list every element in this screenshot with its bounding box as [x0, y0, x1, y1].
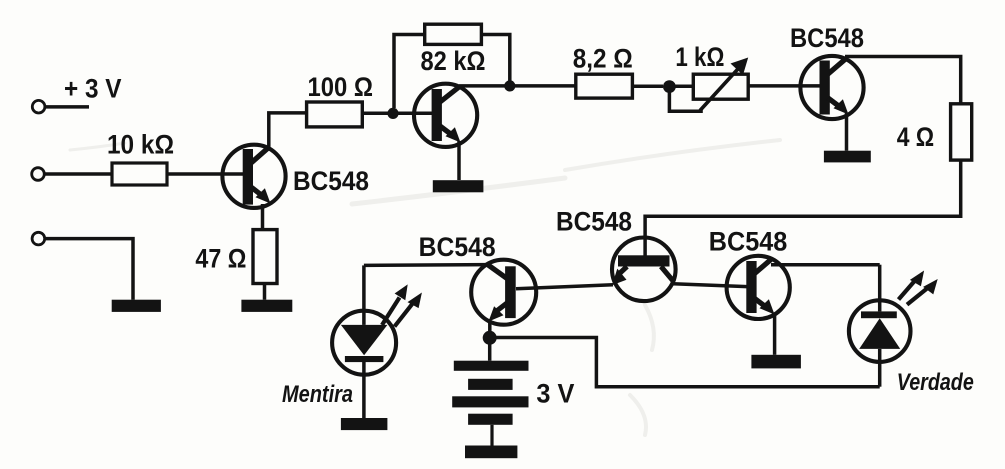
wire 47 Ohm to ground — [263, 284, 267, 300]
wire Q5 collector to Q6 base — [673, 284, 747, 287]
wire Q3 emitter down — [845, 113, 849, 151]
trimmer wiper arrow — [700, 58, 748, 111]
wire Q4 emitter to node D — [488, 319, 492, 334]
LED Verdade light arrows — [899, 271, 938, 305]
wire 82k right leg — [481, 35, 509, 82]
wire Q1 collector up — [269, 113, 307, 148]
wire Q2 emitter down — [457, 141, 461, 180]
svg-text:BC548: BC548 — [293, 166, 369, 196]
transistor Q5 BC548 rotated — [612, 237, 676, 301]
svg-text:3 V: 3 V — [536, 379, 574, 409]
wire 1k to Q3 base — [748, 84, 821, 88]
ground Q6 — [751, 355, 801, 369]
LED Verdade — [849, 265, 911, 387]
wire 4 Ohm down and rail to Q5 base — [645, 160, 961, 256]
node B junction dot — [504, 80, 515, 91]
wire terminal3 to ground — [45, 239, 133, 300]
trimmer 1 kOhm body — [693, 74, 748, 99]
wire Q6 collector to LED Verdade — [771, 263, 880, 267]
resistor 10 kOhm — [112, 163, 167, 185]
terminal input — [32, 168, 45, 181]
ground LED Mentira — [341, 418, 388, 430]
wire input to R 10k — [45, 172, 112, 176]
svg-text:8,2 Ω: 8,2 Ω — [573, 43, 633, 73]
terminal ground input — [32, 232, 45, 245]
svg-text:100 Ω: 100 Ω — [308, 72, 374, 102]
LED Mentira — [332, 265, 396, 418]
node C junction dot — [663, 80, 676, 93]
wire Q1 emitter to 47 Ohm — [261, 204, 265, 230]
ground Q3 — [824, 151, 871, 163]
svg-text:+ 3 V: + 3 V — [64, 74, 122, 104]
transistor Q2 BC548 — [414, 84, 477, 147]
wire 82k left leg — [394, 35, 425, 109]
battery B1 3V — [452, 361, 528, 459]
wire wiper return to node C — [669, 92, 702, 111]
svg-text:47 Ω: 47 Ω — [195, 244, 246, 274]
transistor Q6 BC548 — [727, 256, 790, 319]
resistor 4 Ohm — [951, 104, 972, 160]
wire 8,2 to node C — [632, 84, 663, 88]
svg-text:BC548: BC548 — [556, 207, 632, 237]
transistor Q1 BC548 — [222, 145, 285, 208]
ground Q2 — [433, 180, 484, 192]
wire node D to bottom rail — [493, 338, 880, 387]
wire Q5 emitter to Q4 base — [516, 285, 613, 289]
svg-text:BC548: BC548 — [790, 23, 864, 53]
wire 100 Ohm to node A — [362, 111, 392, 115]
scan smudge streaks — [70, 140, 780, 435]
wire Q6 emitter down — [773, 313, 777, 355]
svg-text:82 kΩ: 82 kΩ — [421, 46, 486, 76]
svg-text:1 kΩ: 1 kΩ — [675, 42, 724, 72]
wire Q3 collector to 4 Ohm — [845, 57, 961, 104]
svg-text:Mentira: Mentira — [282, 381, 353, 408]
resistor 100 Ohm — [307, 102, 363, 127]
wire Q2 collector to 8,2 — [459, 84, 576, 88]
wire Q4 collector to LED Mentira — [364, 263, 487, 267]
transistor Q4 BC548 mirrored — [471, 260, 536, 325]
svg-text:Verdade: Verdade — [897, 369, 974, 396]
wire node A to Q2 base — [393, 111, 433, 115]
svg-text:BC548: BC548 — [709, 227, 788, 257]
svg-text:BC548: BC548 — [419, 232, 496, 262]
ground 47 Ohm — [241, 300, 292, 312]
wire +3V stub — [45, 105, 89, 109]
LED Mentira light arrows — [382, 284, 422, 326]
node D junction dot — [483, 331, 497, 345]
resistor 8,2 Ohm — [576, 74, 633, 98]
resistor 47 Ohm — [253, 230, 277, 284]
transistor Q3 BC548 — [800, 56, 863, 119]
wire node C to 1k — [669, 84, 693, 88]
wire R10k to Q1 base — [167, 172, 244, 176]
svg-text:4 Ω: 4 Ω — [897, 122, 935, 152]
resistor 82 kOhm — [425, 24, 482, 44]
ground terminal3 — [112, 300, 161, 312]
node A junction dot — [387, 108, 398, 119]
terminal +3V — [32, 100, 45, 113]
battery 3V wire from node D — [488, 341, 492, 361]
svg-text:10 kΩ: 10 kΩ — [107, 130, 174, 160]
